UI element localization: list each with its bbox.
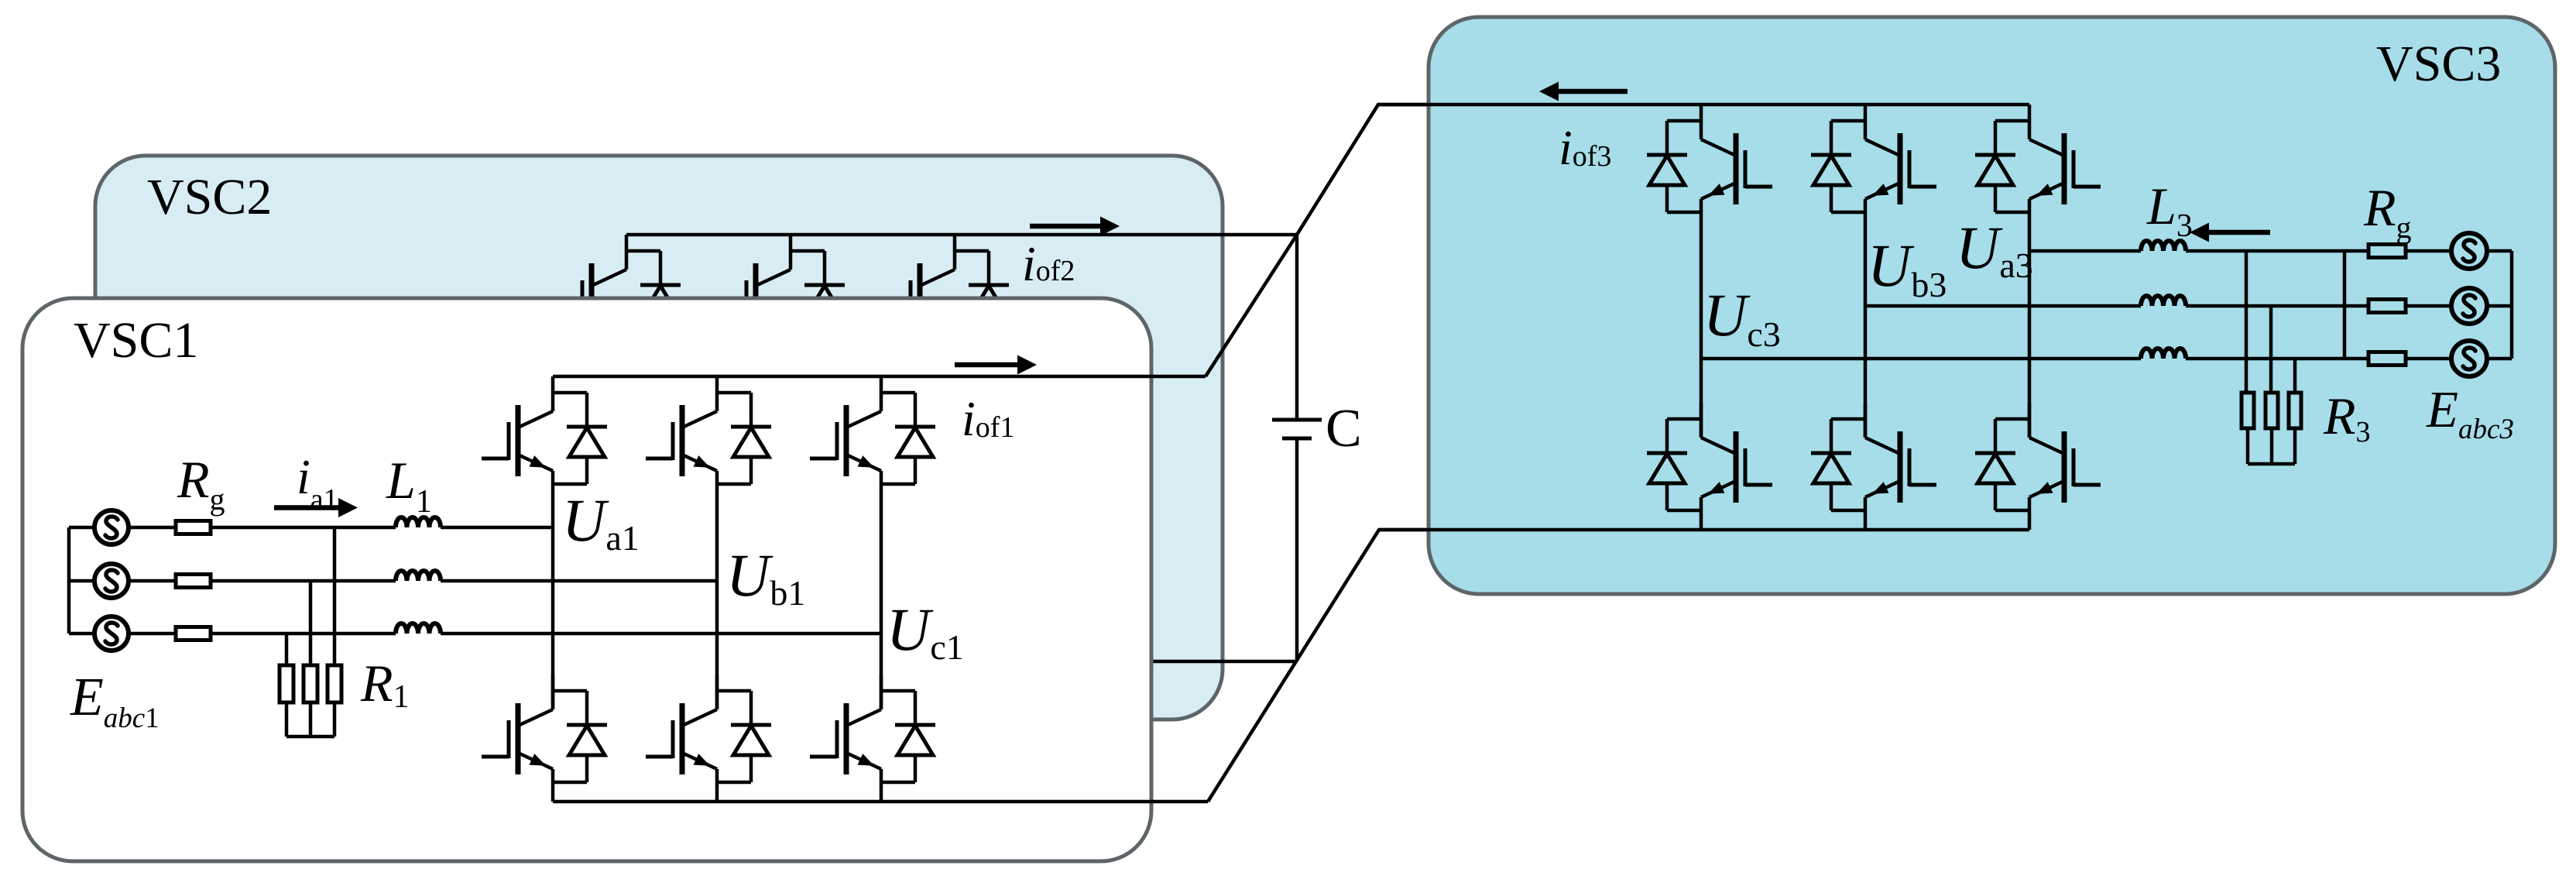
inductor L1 phase c <box>396 623 441 634</box>
inductor L1 phase a <box>396 517 441 527</box>
wire tap b3 to R3 <box>2269 306 2273 393</box>
IGBT+diode VSC2 phase-b upper <box>719 235 845 342</box>
svg-text:VSC2: VSC2 <box>147 169 272 225</box>
IGBT+diode VSC3 phase-a upper <box>1975 105 2101 212</box>
wire source neutral bus <box>67 527 71 634</box>
resistor R1 phase a <box>328 665 341 702</box>
wire <box>2487 304 2512 308</box>
wire <box>285 702 289 737</box>
wire phase c3 <box>1701 357 2141 361</box>
arrow i_of1 direction <box>955 355 1037 375</box>
wire VSC3 DC+ rail <box>1378 103 2029 107</box>
resistor R3 phase a <box>2242 393 2254 428</box>
resistor R1 phase c <box>280 665 293 702</box>
wire phase a <box>211 526 396 530</box>
AC source E_a1 <box>94 510 129 544</box>
IGBT+diode VSC3 phase-a lower <box>1975 403 2101 510</box>
wire <box>2487 249 2512 253</box>
wire leg a mid <box>2028 212 2032 438</box>
IGBT+diode VSC3 phase-c upper <box>1647 105 1772 212</box>
wire <box>129 632 176 636</box>
wire VSC3 DC- rail <box>1379 528 2029 532</box>
wire VSC1 DC- rail <box>553 800 1208 804</box>
wire PCC bus <box>2343 251 2347 359</box>
wire <box>2487 357 2512 361</box>
VSC1 converter box <box>22 298 1151 861</box>
wire <box>129 526 176 530</box>
inductor L3 phase a <box>2141 241 2186 251</box>
wire leg b mid <box>1864 212 1868 438</box>
wire phase a3 <box>2029 249 2141 253</box>
wire DC- bus to VSC3 <box>1208 530 2029 802</box>
wire <box>2028 510 2032 530</box>
wire R3 star point <box>2248 462 2295 466</box>
capacitor C <box>1272 235 1322 661</box>
svg-text:VSC1: VSC1 <box>74 312 198 369</box>
resistor Rg phase c <box>176 627 211 640</box>
wire <box>2406 357 2452 361</box>
wire phase b3 <box>1865 304 2141 308</box>
IGBT+diode VSC1 phase-b upper <box>646 376 771 484</box>
wire <box>2406 304 2452 308</box>
IGBT+diode VSC1 phase-b lower <box>646 675 771 782</box>
VSC2 converter box <box>95 156 1223 719</box>
IGBT+diode VSC1 phase-a upper <box>482 376 607 484</box>
wire <box>2186 304 2368 308</box>
wire <box>2293 428 2297 464</box>
wire <box>2406 249 2452 253</box>
IGBT+diode VSC3 phase-b lower <box>1811 403 1936 510</box>
wire <box>129 579 176 583</box>
wire tap phase b to R1 <box>309 581 313 665</box>
svg-text:C: C <box>1326 399 1362 458</box>
wire <box>333 702 337 737</box>
AC source E_b1 <box>94 564 129 598</box>
wire VSC1 DC+ rail <box>553 375 1206 379</box>
wire <box>551 782 555 802</box>
wire phase b to source <box>69 579 94 583</box>
wire leg b mid <box>715 484 719 709</box>
resistor Rg phase b3 <box>2368 300 2406 313</box>
resistor Rg phase b <box>176 575 211 588</box>
wire tap phase a to R1 <box>333 527 337 665</box>
wire R1 star point <box>286 735 334 739</box>
resistor R1 phase b <box>304 665 317 702</box>
wire DC+ bus to VSC3 <box>1206 105 2029 376</box>
wire <box>2186 357 2368 361</box>
wire phase a to source <box>69 526 94 530</box>
wire <box>2270 428 2274 464</box>
wire <box>309 702 313 737</box>
wire source loop bus <box>2510 251 2514 359</box>
AC source E_c3 <box>2451 341 2487 376</box>
wire <box>880 782 883 802</box>
IGBT+diode VSC3 phase-c lower <box>1647 403 1772 510</box>
wire VSC2 DC+ rail <box>626 233 1297 237</box>
wire <box>2246 428 2250 464</box>
inductor L3 phase c <box>2141 349 2186 359</box>
wire phase c to source <box>69 632 94 636</box>
arrow i_of3 direction <box>1539 82 1628 101</box>
wire phase a to bridge <box>441 526 553 530</box>
wire <box>1864 510 1868 530</box>
wire <box>2186 249 2368 253</box>
wire phase b to bridge <box>441 579 717 583</box>
wire leg c mid <box>880 484 883 709</box>
wire tap a3 to R3 <box>2245 251 2248 393</box>
IGBT+diode VSC1 phase-c upper <box>810 376 935 484</box>
resistor Rg phase a <box>176 521 211 534</box>
wire VSC2 DC- connection <box>1130 660 1297 664</box>
VSC3 converter box <box>1429 17 2555 594</box>
wire tap c3 to R3 <box>2293 359 2297 393</box>
AC source E_b3 <box>2451 288 2487 324</box>
wire phase b <box>211 579 396 583</box>
wire phase c to bridge <box>441 632 881 636</box>
svg-text:VSC3: VSC3 <box>2376 36 2501 92</box>
wire <box>1700 510 1703 530</box>
AC source E_c1 <box>94 616 129 651</box>
IGBT+diode VSC1 phase-c lower <box>810 675 935 782</box>
wire leg a mid <box>551 484 555 709</box>
arrow L3 current direction <box>2190 223 2270 242</box>
arrow i_a1 <box>274 498 358 517</box>
IGBT+diode VSC1 phase-a lower <box>482 675 607 782</box>
resistor R3 phase b <box>2266 393 2278 428</box>
inductor L1 phase b <box>396 571 441 581</box>
inductor L3 phase b <box>2141 296 2186 306</box>
resistor Rg phase a3 <box>2368 245 2406 258</box>
IGBT+diode VSC2 phase-a upper <box>555 235 681 342</box>
wire phase c <box>211 632 396 636</box>
resistor R3 phase c <box>2289 393 2301 428</box>
arrow i_of2 direction <box>1030 217 1120 236</box>
IGBT+diode VSC3 phase-b upper <box>1811 105 1936 212</box>
wire leg c mid <box>1700 212 1703 438</box>
wire tap phase c to R1 <box>285 634 289 665</box>
IGBT+diode VSC2 phase-c upper <box>883 235 1009 342</box>
AC source E_a3 <box>2451 233 2487 269</box>
resistor Rg phase c3 <box>2368 352 2406 366</box>
wire <box>715 782 719 802</box>
